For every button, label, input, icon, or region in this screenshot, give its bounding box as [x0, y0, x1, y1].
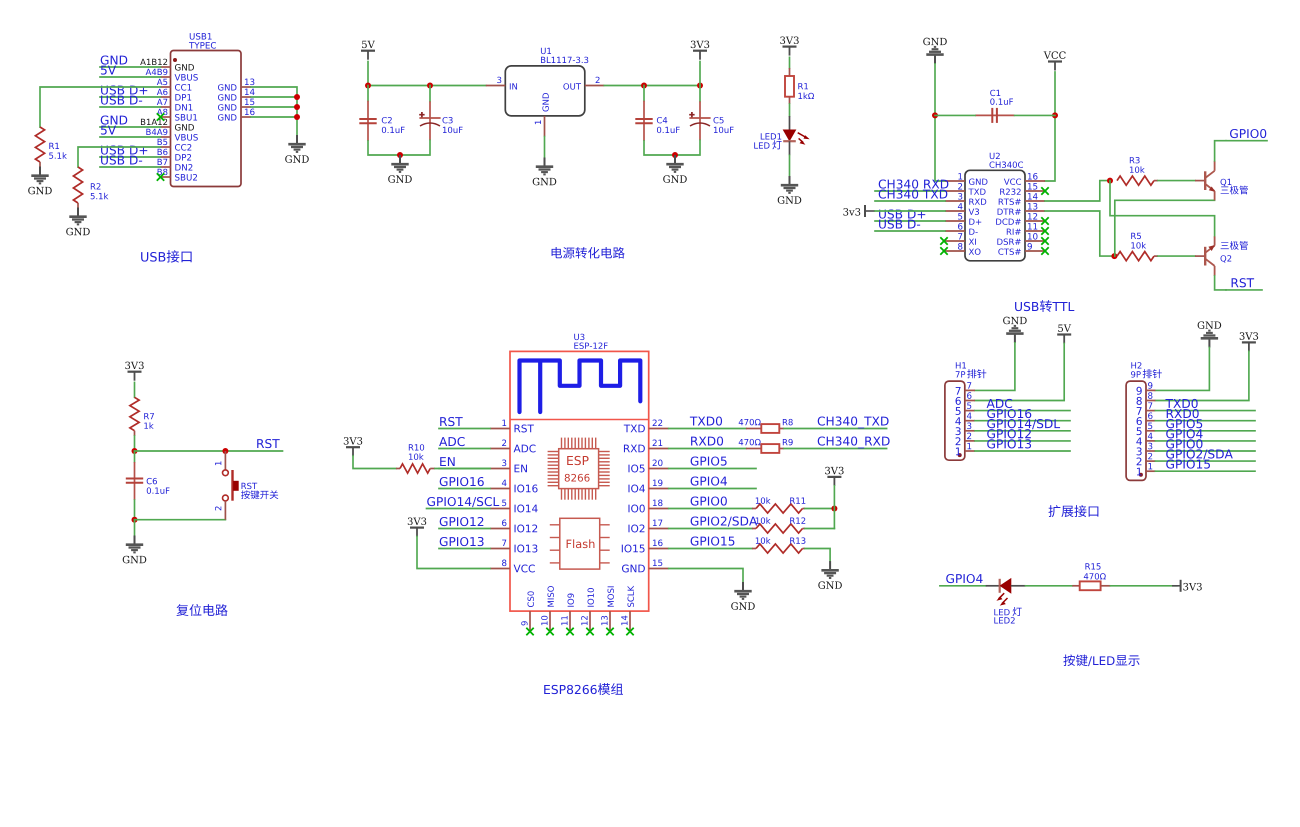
section title button LED display: [1063, 654, 1087, 666]
resistor R1 1k ohm: [785, 68, 814, 104]
U3 reference label: [574, 334, 584, 340]
junction R3 input: [1107, 178, 1113, 184]
junction OUT rail C5: [697, 83, 703, 89]
net label GPIO13: [987, 439, 1031, 448]
U2 left pin 1 GND: [945, 173, 987, 185]
wire U3 GND pin down: [669, 569, 743, 583]
resistor R7 1k: [130, 397, 154, 436]
wire net CH340 RXD: [875, 190, 945, 192]
resistor R15 470 ohm: [1072, 563, 1110, 590]
wire net USB D+: [100, 156, 161, 158]
wire GPIO0: [669, 508, 752, 510]
wire R11 to 3V3 rail: [805, 508, 834, 510]
U3 left pin 6 IO12: [490, 520, 537, 533]
U1 reference label: [541, 48, 551, 54]
USB1 left pin B8 SBU2: [158, 169, 197, 181]
U3 left pin 3 EN: [490, 460, 527, 473]
ground below U1: [533, 158, 557, 186]
U3 right pin 16 IO15: [622, 540, 669, 553]
H1 pin 1: [956, 443, 975, 455]
net label GPIO16: [440, 477, 484, 486]
junction RST left: [132, 448, 138, 454]
U2 right pin 15 R232: [1000, 183, 1045, 195]
U3 bottom pin 10 MISO: [541, 586, 554, 631]
U3 bottom pin 13 MOSI: [601, 586, 614, 631]
net label GPIO12: [987, 429, 1031, 438]
USB1 left pin B4A9 VBUS: [146, 129, 197, 141]
net label USB D-: [879, 219, 920, 228]
no-connect U2 XI: [940, 237, 947, 244]
wire 5V down: [367, 62, 369, 86]
U3 antenna divider: [510, 419, 649, 421]
no-connect U3 pin 11: [566, 628, 573, 635]
U3 left pin 8 VCC: [490, 560, 535, 573]
wire H1 net GPIO14/SDL: [975, 430, 1070, 432]
wire pin16 to rail: [251, 116, 297, 118]
USB1 left pin B1A12 GND: [141, 119, 194, 131]
net label GPIO5: [691, 456, 727, 465]
H2 pin 1: [1137, 463, 1155, 475]
wire GPIO2/SDA: [669, 528, 752, 530]
wire R1 to LED1: [789, 104, 791, 116]
wire H1 pin6 to 5V: [975, 343, 1064, 400]
U2 left pin 6 D-: [945, 223, 978, 235]
wire GPIO5: [669, 468, 756, 470]
wire Q1 collector to GPIO0: [1215, 141, 1226, 161]
net label GPIO16: [987, 409, 1031, 418]
wire GPIO0 label: [1226, 140, 1267, 142]
wire RTS# to R3: [1045, 181, 1110, 201]
power flag 5V H1: [1057, 325, 1071, 344]
wire LED2 to R15: [1026, 585, 1073, 587]
wire rail to C5: [699, 86, 701, 102]
H2 pin1 marker dot: [1139, 473, 1143, 477]
net label GPIO14/SCL: [427, 497, 499, 507]
U3 left pin 4 IO16: [490, 480, 538, 493]
wire RXD0: [669, 448, 746, 450]
wire H2 net TXD0: [1155, 410, 1255, 412]
junction 5V rail C3: [427, 83, 433, 89]
net label CH340_RXD: [818, 436, 890, 448]
wire R13 to ground: [805, 549, 830, 562]
H2 reference label: [1131, 362, 1141, 368]
U3 right pin 20 IO5: [628, 460, 668, 473]
U1 pin 2 OUT: [563, 77, 604, 90]
net label USB D+: [101, 145, 147, 154]
USB1 right pin 15 GND: [218, 99, 254, 111]
H1 pin 7: [956, 382, 975, 394]
no-connect U3 pin 9: [526, 628, 533, 635]
no-connect pin B8 SBU2: [157, 173, 164, 180]
U2 right pin 16 VCC: [1004, 173, 1045, 185]
U2 left pin 5 D+: [945, 213, 981, 225]
net label ADC: [439, 437, 465, 446]
resistor R10 10k: [396, 444, 435, 473]
no-connect U3 pin 12: [586, 628, 593, 635]
U3 bottom pin 9 CS0: [521, 591, 534, 631]
no-connect U3 pin 14: [626, 628, 633, 635]
U3 right pin 22 TXD: [624, 420, 669, 433]
USB1 left pin A8 SBU1: [157, 109, 197, 121]
H2 pin 2: [1137, 453, 1156, 465]
ground below R2: [66, 208, 90, 236]
capacitor C4 0.1uF: [635, 101, 679, 141]
power flag 3V3 pullups: [825, 467, 843, 486]
resistor R11 10k: [752, 497, 805, 513]
power flag 3V3 reset: [125, 362, 143, 381]
wire H1 pin7 to GND: [975, 343, 1015, 391]
wire pin15 to rail: [251, 106, 297, 108]
wire net USB D+: [100, 96, 161, 98]
wire R3 node to Q2 emitter: [1110, 181, 1215, 237]
net label GND: [101, 115, 128, 124]
U1 value label BL1117-3.3: [541, 57, 588, 63]
wire GND rail to U2 pin1: [935, 64, 945, 181]
USB1 left pin A6 DP1: [157, 89, 191, 101]
wire R10 to EN: [435, 468, 490, 470]
U3 bottom pin 11 IO9: [561, 593, 574, 631]
H1 pin 3: [956, 423, 975, 436]
H1 value label 7P header: [956, 371, 966, 377]
U2 reference label: [990, 153, 1000, 159]
wire LED1 to ground: [789, 155, 791, 176]
wire net USB D-: [100, 106, 161, 108]
switch value label: [241, 490, 278, 499]
capacitor C1 0.1uF: [975, 90, 1015, 123]
wire rail to C3: [429, 86, 431, 102]
wire net RST: [439, 428, 490, 430]
wire net CH340 TXD: [875, 200, 945, 202]
U2 right pin 9 CTS#: [998, 243, 1045, 255]
wire 3V3 to R1: [789, 57, 791, 68]
net label RST: [1232, 278, 1255, 287]
push button switch RST: [215, 451, 257, 520]
wire H2 net GPIO5: [1155, 430, 1255, 432]
wire R5 to Q2 base: [1158, 255, 1195, 257]
net label GPIO15: [1166, 459, 1210, 468]
resistor R1 5.1k: [35, 127, 67, 167]
net label GPIO5: [1166, 419, 1202, 428]
wire bottom rail to switch: [135, 519, 226, 521]
U3 value label ESP-12F: [574, 342, 607, 348]
wire H1 net GPIO16: [975, 420, 1070, 422]
junction GND rail pin16: [294, 114, 300, 120]
section title power conversion: [552, 247, 625, 259]
junction bottom left: [132, 517, 138, 523]
USB1 pin1 marker dot: [173, 58, 177, 62]
H2 pin 6: [1137, 412, 1156, 425]
section title USB to TTL: [1015, 302, 1038, 311]
H1 pin 4: [955, 413, 975, 425]
U3 left pin 2 ADC: [490, 440, 536, 453]
section title expansion header: [1049, 505, 1099, 517]
net label RST: [257, 439, 280, 448]
wire GPIO4 to LED2: [940, 585, 986, 587]
USB1 value label TYPEC: [189, 42, 216, 49]
U2 right pin 12 DCD#: [996, 213, 1045, 225]
wire H2 pin8 to 3V3: [1155, 351, 1249, 400]
no-connect U2 right pin row 221: [1041, 217, 1048, 224]
U3 right pin 17 IO2: [628, 520, 668, 533]
U2 right pin 10 DSR#: [997, 233, 1045, 245]
LED LED2: [986, 579, 1026, 606]
section title ESP8266 module: [544, 685, 597, 694]
net label USB D+: [879, 209, 925, 218]
net label GPIO2/SDA: [1166, 449, 1233, 459]
wire H2 net GPIO4: [1155, 440, 1255, 442]
USB1 left pin A7 DN1: [157, 99, 193, 111]
net label EN: [440, 457, 454, 466]
resistor R13 10k: [752, 537, 805, 553]
wire H1 net ADC: [975, 410, 1070, 412]
net label GPIO0: [1166, 439, 1202, 448]
U3 ESP8266 chip icon: [548, 438, 610, 500]
resistor R12 10k: [752, 517, 805, 533]
ground above H2: [1198, 321, 1222, 347]
ground below R1: [28, 167, 52, 195]
net label ADC: [987, 399, 1013, 408]
U2 right pin 11 RI#: [1007, 223, 1045, 235]
junction R11 3V3: [831, 506, 837, 512]
net label GPIO0: [1230, 129, 1266, 138]
wire TXD0: [669, 428, 746, 430]
wire 3V3 down: [699, 62, 701, 86]
USB1 right pin 16 GND: [218, 109, 255, 121]
net flag 3V3: [1181, 580, 1202, 592]
ground above H1: [1003, 317, 1027, 343]
transistor Q1 NPN: [1195, 161, 1231, 201]
module U3 ESP-12F body: [510, 351, 649, 611]
wire net USB D-: [875, 230, 945, 232]
wire R12 to 3V3 rail: [805, 528, 834, 530]
wire R8 to CH340_TXD: [784, 428, 887, 430]
wire 3V3 to R10: [353, 456, 396, 469]
junction GND right rail: [672, 152, 678, 158]
IC U2 CH340C body: [965, 170, 1025, 260]
wire net USB D+: [875, 220, 945, 222]
capacitor C6 0.1uF: [126, 462, 170, 500]
wire rail to C2: [367, 86, 369, 101]
wire 3v3 to pin4: [875, 210, 945, 212]
transistor Q2 NPN: [1195, 236, 1231, 276]
net label GPIO4: [946, 574, 982, 583]
wire net GPIO12: [439, 528, 490, 530]
wire net USB D-: [100, 166, 161, 168]
wire net 5V: [100, 136, 161, 138]
power flag 3V3 LED1: [780, 36, 798, 55]
USB1 left pin B7 DN2: [158, 159, 193, 171]
net label USB D-: [101, 95, 142, 104]
capacitor C5 10uF polarized: [689, 101, 733, 140]
net label TXD0: [1165, 399, 1197, 408]
H2 pin 4: [1136, 433, 1155, 445]
U3 left pin 5 IO14: [490, 500, 538, 513]
no-connect U2 right pin row 251: [1041, 247, 1048, 254]
net label 5V: [101, 66, 116, 75]
U1 pin 3 IN: [486, 77, 517, 90]
power flag 3V3 output: [691, 41, 709, 60]
USB1 left pin B5 CC2: [158, 139, 192, 151]
U2 left pin 3 RXD: [945, 193, 986, 205]
wire U1 GND down: [544, 137, 546, 158]
ground below U3 GND pin: [731, 582, 755, 610]
wire net GPIO13: [439, 548, 490, 550]
power flag 5V: [361, 41, 375, 60]
U2 right pin 14 RTS#: [999, 193, 1045, 205]
wire 3V3 to VCC pin: [417, 537, 490, 569]
resistor R3 10k: [1117, 157, 1158, 185]
U3 right pin 15 GND: [622, 560, 669, 573]
U1 pin 1 GND: [535, 93, 549, 137]
wire C4 C5 bottoms: [644, 140, 700, 155]
resistor R8 470 ohm: [739, 419, 793, 433]
wire H1 net GPIO13: [975, 450, 1070, 452]
H2 value label 9P header: [1131, 371, 1141, 377]
ground below C4 C5: [663, 155, 687, 183]
U2 left pin 4 V3: [945, 203, 979, 215]
junction GND rail pin14: [294, 94, 300, 100]
no-connect U2 right pin row 241: [1041, 237, 1048, 244]
wire H1 net GPIO12: [975, 440, 1070, 442]
net label 5V: [101, 126, 116, 135]
junction GND rail pin15: [294, 104, 300, 110]
wire net GND: [100, 126, 161, 128]
U3 left pin 7 IO13: [490, 540, 537, 553]
wire net ADC: [439, 448, 490, 450]
junction 5V rail C2: [365, 83, 371, 89]
ground right of USB1: [285, 135, 309, 163]
wire C2 C3 bottoms: [368, 140, 430, 155]
resistor R2 5.1k: [73, 167, 108, 208]
resistor R9 470 ohm: [739, 439, 793, 453]
U3 antenna trace: [520, 361, 641, 413]
section title reset circuit: [176, 604, 227, 616]
wire R9 to CH340_RXD: [784, 448, 887, 450]
wire R7 to RST node: [134, 436, 136, 451]
no-connect U3 pin 13: [606, 628, 613, 635]
U3 right pin 21 RXD: [624, 440, 669, 453]
wire VCC rail to U2 pin16: [1045, 72, 1055, 181]
USB1 reference label: [190, 33, 212, 40]
wire H2 net GPIO0: [1155, 450, 1255, 452]
U3 right pin 19 IO4: [628, 480, 668, 493]
net label GPIO12: [440, 517, 484, 526]
net label CH340_TXD: [818, 416, 889, 428]
ground above U2: [923, 38, 947, 64]
net label GPIO2/SDA: [691, 516, 758, 526]
Q1 value label transistor: [1221, 186, 1248, 195]
power flag VCC: [1044, 51, 1066, 70]
wire pin14 to rail: [251, 96, 297, 98]
power flag 3V3 EN: [344, 437, 362, 456]
wire RST rail: [135, 450, 283, 452]
power flag 3V3 VCC: [408, 517, 426, 536]
ground below R13: [818, 561, 842, 589]
net label GPIO0: [691, 496, 727, 505]
net label USB D+: [101, 85, 147, 94]
capacitor C2 0.1uF: [359, 101, 404, 141]
net label RXD0: [691, 436, 723, 445]
header H2 9P body: [1126, 381, 1146, 480]
connector USB1 TYPEC body: [171, 51, 242, 187]
H1 reference label: [956, 362, 966, 368]
wire net GPIO16: [439, 488, 490, 490]
net label GPIO4: [691, 476, 727, 485]
wire H2 net GPIO15: [1155, 470, 1255, 472]
wire net GND: [100, 66, 161, 68]
U2 left pin 2 TXD: [945, 183, 986, 195]
wire C1 left: [935, 114, 975, 116]
wire H2 pin9 to GND: [1155, 348, 1209, 391]
H1 pin 5: [956, 402, 975, 414]
U3 left pin 1 RST: [490, 420, 534, 433]
net label GND: [101, 55, 128, 64]
wire OUT to 3V3: [604, 85, 700, 87]
wire RST label: [1226, 289, 1262, 291]
section title USB interface: [141, 252, 165, 262]
net label CH340 RXD: [879, 179, 949, 188]
wire 3V3 to R7: [134, 382, 136, 397]
U3 right pin 18 IO0: [628, 500, 668, 513]
U3 bottom pin 12 IO10: [581, 588, 594, 631]
net label GPIO15: [691, 536, 735, 545]
wire Q2 collector to RST: [1215, 276, 1226, 290]
no-connect U2 right pin row 231: [1041, 227, 1048, 234]
U2 left pin 8 XO: [945, 243, 981, 255]
net label GPIO14/SDL: [987, 419, 1060, 429]
no-connect U3 pin 10: [546, 628, 553, 635]
U3 Flash chip icon: [550, 518, 610, 569]
wire R15 to 3V3: [1111, 585, 1177, 587]
H2 pin 8: [1137, 392, 1156, 405]
wire DTR# to R5: [1045, 211, 1114, 256]
wire CC2 to R2: [78, 147, 161, 167]
net label CH340 TXD: [879, 189, 948, 198]
U3 bottom pin 14 SCLK: [621, 586, 634, 631]
header H1 7P body: [945, 381, 965, 460]
wire C6 to bottom rail: [134, 500, 136, 520]
wire to ground reset: [134, 520, 136, 536]
H2 pin 7: [1137, 402, 1156, 414]
no-connect pin A8 SBU1: [157, 113, 164, 120]
LED1 value label: [754, 142, 769, 148]
H1 pin 6: [956, 392, 975, 405]
H2 pin 3: [1137, 443, 1156, 456]
junction RST switch: [222, 448, 228, 454]
junction VCC rail C1: [1052, 112, 1058, 118]
wire GPIO15: [669, 548, 752, 550]
capacitor C3 10uF polarized: [419, 101, 462, 140]
wire Q1 emitter to R5 node: [1115, 200, 1215, 256]
net label RST: [440, 417, 463, 426]
no-connect U2 XO: [940, 247, 947, 254]
ground reset circuit: [123, 536, 147, 564]
wire pin13 to GND rail: [251, 87, 297, 135]
H2 pin 9: [1136, 382, 1155, 395]
net label USB D-: [101, 155, 142, 164]
wire H2 net GPIO2/SDA: [1155, 460, 1255, 462]
wire CC1 to R1: [40, 87, 161, 127]
USB1 right pin 13 GND: [218, 79, 254, 91]
USB1 left pin B6 DP2: [158, 149, 192, 161]
regulator U1 BL1117-3.3 body: [505, 66, 585, 116]
wire rail to C4: [643, 86, 645, 101]
junction OUT rail C4: [641, 83, 647, 89]
USB1 left pin A4B9 VBUS: [146, 69, 198, 81]
junction GND rail C1: [932, 112, 938, 118]
U2 value label CH340C: [989, 161, 1023, 167]
wire net GPIO14/SCL: [427, 508, 491, 510]
